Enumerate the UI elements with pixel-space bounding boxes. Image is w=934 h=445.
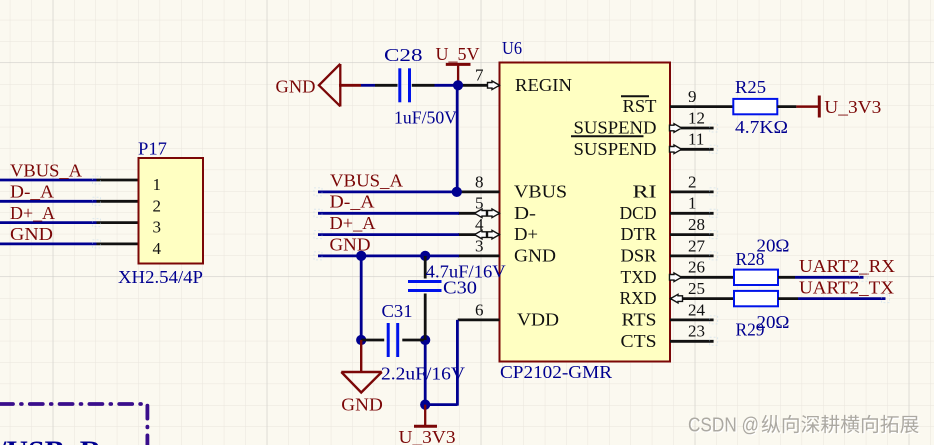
svg-text:2: 2	[153, 196, 162, 215]
svg-text:GND: GND	[341, 395, 383, 415]
svg-text:/USB_R: /USB_R	[0, 435, 102, 445]
svg-text:3: 3	[153, 218, 162, 237]
svg-text:DCD: DCD	[620, 203, 657, 223]
svg-text:4.7KΩ: 4.7KΩ	[735, 117, 788, 137]
svg-text:28: 28	[688, 215, 705, 234]
svg-text:CSDN @: CSDN @	[688, 415, 759, 437]
svg-text:VBUS: VBUS	[514, 181, 567, 201]
svg-text:SUSPEND: SUSPEND	[574, 139, 657, 159]
svg-text:D+_A: D+_A	[330, 213, 376, 233]
svg-text:VBUS_A: VBUS_A	[10, 160, 82, 180]
svg-text:C31: C31	[382, 301, 413, 321]
svg-text:GND: GND	[330, 234, 371, 254]
svg-text:1uF/50V: 1uF/50V	[394, 108, 457, 128]
svg-text:12: 12	[688, 108, 705, 127]
svg-text:D-_A: D-_A	[10, 182, 54, 202]
svg-text:2.2uF/16V: 2.2uF/16V	[381, 364, 465, 384]
svg-text:U_3V3: U_3V3	[824, 97, 881, 117]
svg-text:P17: P17	[138, 139, 167, 159]
svg-text:RST: RST	[623, 96, 657, 116]
svg-text:GND: GND	[276, 77, 316, 97]
svg-text:VDD: VDD	[517, 309, 559, 329]
svg-text:2: 2	[688, 172, 697, 191]
svg-text:U6: U6	[502, 38, 522, 58]
svg-text:UART2_RX: UART2_RX	[799, 256, 895, 276]
svg-text:R28: R28	[736, 249, 765, 269]
svg-text:R25: R25	[735, 77, 766, 97]
svg-text:4: 4	[153, 239, 162, 258]
svg-text:D-: D-	[514, 203, 536, 223]
svg-text:TXD: TXD	[621, 267, 657, 287]
svg-text:D-_A: D-_A	[330, 192, 375, 212]
svg-text:C28: C28	[384, 45, 423, 65]
svg-text:U_5V: U_5V	[436, 44, 480, 64]
svg-text:27: 27	[688, 236, 706, 255]
svg-text:RTS: RTS	[622, 309, 657, 329]
svg-text:RXD: RXD	[620, 288, 657, 308]
svg-text:26: 26	[688, 258, 705, 277]
svg-text:25: 25	[688, 279, 705, 298]
svg-text:11: 11	[688, 130, 704, 149]
svg-text:DTR: DTR	[621, 224, 657, 244]
svg-text:U_3V3: U_3V3	[399, 427, 456, 445]
svg-text:9: 9	[688, 87, 697, 106]
svg-text:SUSPEND: SUSPEND	[574, 118, 657, 138]
svg-text:6: 6	[475, 300, 484, 319]
svg-text:R29: R29	[736, 320, 765, 340]
svg-text:D+: D+	[514, 224, 538, 244]
svg-text:XH2.54/4P: XH2.54/4P	[118, 267, 203, 287]
svg-text:CTS: CTS	[621, 331, 657, 351]
svg-text:UART2_TX: UART2_TX	[799, 277, 894, 297]
svg-text:DSR: DSR	[621, 245, 657, 265]
svg-text:GND: GND	[514, 245, 556, 265]
svg-text:D+_A: D+_A	[10, 203, 55, 223]
svg-text:REGIN: REGIN	[515, 75, 572, 95]
svg-text:24: 24	[688, 300, 706, 319]
svg-text:8: 8	[475, 172, 484, 191]
svg-text:VBUS_A: VBUS_A	[330, 170, 403, 190]
svg-text:RI: RI	[633, 181, 657, 201]
svg-text:23: 23	[688, 322, 705, 341]
svg-text:1: 1	[688, 194, 697, 213]
svg-text:C30: C30	[443, 277, 477, 297]
svg-text:GND: GND	[10, 224, 53, 244]
svg-text:7: 7	[475, 66, 484, 85]
svg-text:1: 1	[153, 175, 162, 194]
svg-text:CP2102-GMR: CP2102-GMR	[500, 362, 612, 382]
